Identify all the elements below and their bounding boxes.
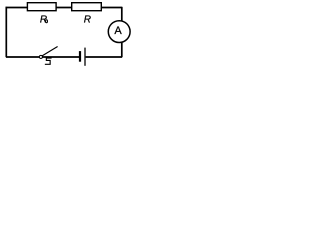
svg-text:A: A — [114, 25, 122, 37]
svg-text:R: R — [84, 15, 91, 26]
